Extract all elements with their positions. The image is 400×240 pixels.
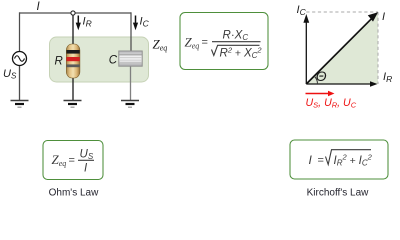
wire source to ground xyxy=(19,66,21,101)
axis IR (horizontal) xyxy=(306,83,371,85)
ground (capacitor) xyxy=(121,101,139,108)
radical xyxy=(326,150,372,165)
ground (resistor) xyxy=(64,101,82,108)
wire resistor branch lower xyxy=(72,78,74,101)
axis IC (vertical) xyxy=(305,22,307,84)
current arrow IC xyxy=(133,16,138,31)
svg-text:Θ: Θ xyxy=(316,68,327,84)
wire top horizontal xyxy=(20,12,132,14)
fraction bar xyxy=(212,41,261,43)
formula box Zeq = US / I (Ohm's law) xyxy=(43,141,103,180)
current arrow IR xyxy=(76,16,81,31)
AC source US xyxy=(13,52,27,66)
svg-text:=: = xyxy=(69,155,75,167)
wire left vertical to source xyxy=(19,12,21,51)
red reference arrow xyxy=(306,93,330,95)
ground (source) xyxy=(11,101,29,108)
phasor vector I xyxy=(306,19,371,84)
dashed line top xyxy=(306,11,378,13)
angle arc theta xyxy=(314,76,317,84)
equivalent impedance region Zeq (green box) xyxy=(50,37,149,82)
wire capacitor branch lower xyxy=(130,65,132,100)
radical xyxy=(212,45,260,55)
wire resistor branch upper xyxy=(72,13,74,45)
formula box I = sqrt(IR^2 + IC^2) (Kirchoff's law) xyxy=(290,140,388,179)
svg-text:Ohm's Law: Ohm's Law xyxy=(49,188,99,199)
svg-text:Kirchoff's Law: Kirchoff's Law xyxy=(307,188,370,199)
dashed line right xyxy=(377,12,379,84)
svg-text:=: = xyxy=(318,155,324,167)
svg-text:C: C xyxy=(109,55,118,67)
svg-text:I: I xyxy=(382,11,385,23)
phasor triangle shading xyxy=(306,12,378,84)
formula box Zeq = R.Xc / sqrt(R^2+Xc^2) xyxy=(180,13,268,70)
node junction on top wire xyxy=(71,11,75,15)
wire capacitor branch upper xyxy=(130,12,132,52)
svg-text:=: = xyxy=(202,37,208,49)
svg-text:R: R xyxy=(55,56,63,68)
